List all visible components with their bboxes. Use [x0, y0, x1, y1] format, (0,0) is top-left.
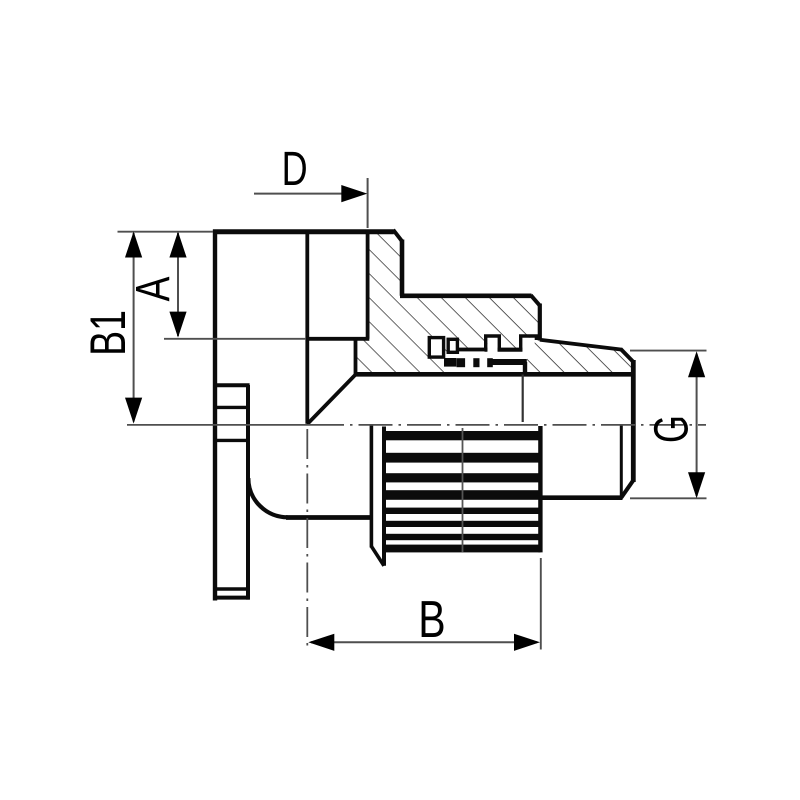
body step top edge [400, 293, 532, 298]
male end inner edge [620, 425, 623, 497]
svg-text:A: A [127, 276, 181, 301]
step chamfer [531, 295, 540, 306]
male end bottom chamfer [621, 480, 633, 497]
male end right face [631, 360, 636, 482]
male end top chamfer [621, 349, 634, 362]
vertical centerline [306, 429, 308, 648]
serration tab gaps [487, 338, 534, 355]
cone transition diagonal [307, 374, 356, 424]
body right edge upper [400, 240, 405, 296]
arrowhead G bottom [688, 472, 705, 498]
svg-text:B1: B1 [81, 310, 136, 356]
svg-text:D: D [282, 142, 308, 195]
dimension B1 line [133, 233, 135, 422]
arrowhead G top [688, 351, 705, 377]
bore top line [355, 372, 632, 377]
dimension A line [177, 233, 179, 336]
hose barb ribs [385, 431, 541, 552]
flange plate top edge [214, 383, 250, 387]
dimension D line [254, 193, 348, 195]
top extension line [118, 231, 214, 233]
barb collar right edge [382, 427, 386, 566]
flange plate groove line 3 [214, 587, 250, 590]
flange plate groove line 2 [214, 439, 250, 442]
socket bottom edge [306, 337, 369, 341]
dimension G bottom extension line [630, 497, 707, 499]
body left edge [213, 230, 217, 601]
arrowhead B left [308, 634, 334, 651]
dimension B line [311, 641, 537, 643]
dimension D extension line [367, 178, 369, 228]
svg-text:G: G [645, 415, 698, 443]
arrowhead D [341, 185, 367, 202]
top right chamfer [393, 230, 402, 241]
arrowhead B1 top [125, 232, 142, 258]
arrowhead A bottom [169, 312, 186, 338]
step right edge [538, 304, 542, 341]
male end bottom edge [541, 495, 623, 500]
dimension G line [696, 354, 698, 496]
section inner left edge [354, 338, 358, 375]
svg-text:B: B [418, 590, 445, 648]
flange plate bottom edge [214, 596, 250, 600]
barb right edge [538, 426, 542, 552]
flange plate right edge [246, 385, 250, 600]
arrowhead A top [169, 232, 186, 258]
dimension A extension line [164, 338, 306, 340]
male end sloped top edge [540, 340, 622, 350]
serration boxes and tab outline [429, 336, 536, 357]
elbow arc [248, 478, 287, 517]
barb collar bottom diagonal [371, 546, 384, 566]
thread shoulder line [522, 375, 524, 423]
top flange block top edge [213, 229, 394, 234]
section hatch: fitting body cross-section [356, 230, 634, 374]
dimension G top extension line [630, 350, 707, 352]
horizontal centerline [127, 425, 706, 648]
serration slot white channel [447, 351, 528, 373]
arrowhead B right [514, 634, 540, 651]
arrowhead B1 bottom [125, 398, 142, 424]
barb front edge line [462, 428, 464, 552]
flange plate groove line 1 [214, 406, 250, 409]
dimension B right extension line [540, 558, 542, 650]
barb collar left edge [370, 426, 374, 548]
socket right edge [366, 230, 370, 339]
socket divider line [305, 231, 309, 424]
serration comb teeth and borders [444, 348, 527, 376]
elbow bottom line [286, 515, 371, 520]
